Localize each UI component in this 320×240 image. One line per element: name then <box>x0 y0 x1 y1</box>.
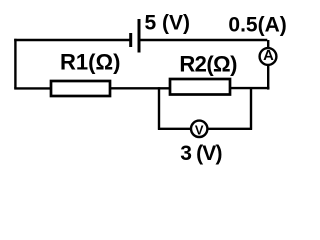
wire: left rail vertical <box>14 39 16 89</box>
ammeter A1 <box>260 48 277 65</box>
battery BT1: long (positive) plate <box>138 19 141 53</box>
wire: voltmeter branch left tap down <box>158 87 160 130</box>
wire: short vertical drop into ammeter <box>267 40 269 48</box>
wire: voltmeter branch right rise up to main wire <box>250 87 252 130</box>
wire: top-left horizontal (battery negative to left rail) <box>14 39 131 41</box>
wire: voltmeter branch bottom-right horizontal <box>208 128 253 130</box>
wire: top-right horizontal from battery to ammeter branch <box>139 39 267 41</box>
wire: from R2 to right node under ammeter <box>230 87 269 89</box>
svg-text:5 (V): 5 (V) <box>145 11 191 34</box>
resistor R2 <box>170 52 237 95</box>
wire: vertical from ammeter down to main node <box>267 66 269 90</box>
wire: voltmeter branch bottom-left horizontal <box>158 128 191 130</box>
voltmeter V1 <box>191 121 207 138</box>
svg-text:R1(Ω): R1(Ω) <box>60 50 120 75</box>
battery BT1: short (negative) plate <box>129 33 132 47</box>
svg-text:R2(Ω): R2(Ω) <box>179 52 237 77</box>
resistor R1 <box>51 50 120 96</box>
svg-text:3 (V): 3 (V) <box>180 142 222 165</box>
wire: bottom-left horizontal to R1 <box>14 87 51 89</box>
wire: between R1 and R2 <box>110 87 170 89</box>
svg-text:0.5(A): 0.5(A) <box>228 14 286 37</box>
svg-text:A: A <box>263 48 274 64</box>
svg-text:V: V <box>195 122 204 137</box>
